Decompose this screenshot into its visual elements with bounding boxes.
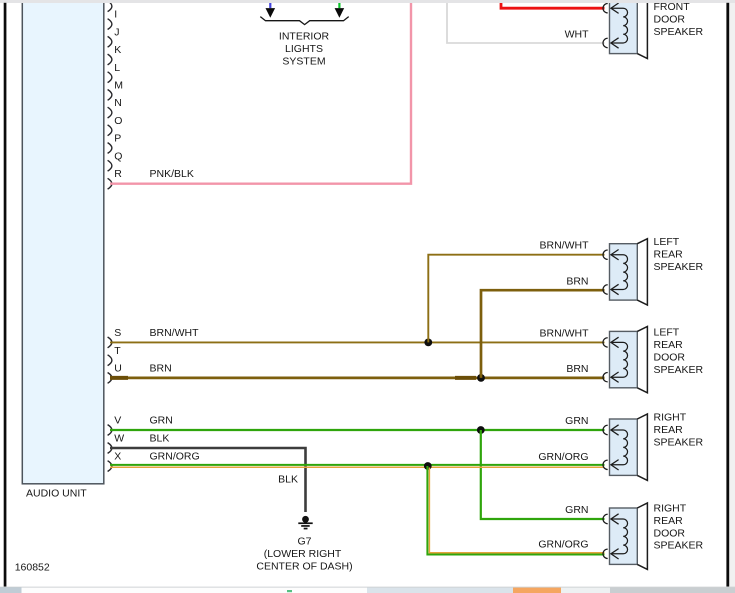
label LEFT REAR SPEAKER	[654, 236, 704, 273]
junction on GRN/ORG	[424, 462, 432, 470]
pin P	[108, 133, 122, 154]
svg-text:DOOR: DOOR	[654, 527, 686, 539]
wire BRN from pin U	[110, 377, 605, 380]
svg-text:I: I	[114, 9, 117, 21]
svg-text:INTERIOR: INTERIOR	[279, 31, 330, 43]
svg-text:SPEAKER: SPEAKER	[654, 261, 704, 273]
svg-text:U: U	[114, 363, 122, 375]
wire green stem to interior lights arrow 2	[338, 3, 340, 9]
svg-text:WHT: WHT	[565, 28, 589, 40]
wire BRN branch to left rear speaker	[481, 290, 605, 378]
wire PNK/BLK from pin R to interior lights system	[110, 3, 411, 184]
pin T	[108, 345, 122, 366]
label LEFT REAR DOOR SPEAKER	[654, 327, 704, 376]
pin K	[108, 44, 122, 65]
frame left border	[4, 3, 7, 587]
wire RED to front door speaker	[501, 3, 605, 9]
svg-text:J: J	[114, 26, 119, 38]
svg-text:BRN: BRN	[566, 275, 588, 287]
frame right border	[726, 3, 729, 587]
wire blue stem to interior lights arrow 1	[269, 3, 271, 9]
svg-text:DOOR: DOOR	[654, 351, 686, 363]
svg-text:SYSTEM: SYSTEM	[282, 56, 325, 68]
svg-text:GRN: GRN	[150, 415, 173, 427]
svg-text:R: R	[114, 168, 122, 180]
svg-text:P: P	[114, 133, 121, 145]
svg-text:AUDIO UNIT: AUDIO UNIT	[26, 488, 87, 500]
pin Q	[108, 150, 123, 171]
brace under arrows	[260, 17, 348, 25]
wire GRN/ORG branch to right rear door speaker (orange)	[429, 468, 604, 553]
svg-text:LEFT: LEFT	[654, 236, 680, 248]
svg-text:G7: G7	[297, 535, 311, 547]
wire GRN/ORG branch to right rear door speaker (green)	[427, 466, 604, 555]
wire WHT to front door speaker	[447, 3, 605, 44]
svg-text:REAR: REAR	[654, 248, 684, 260]
wire GRN from pin V	[110, 429, 605, 431]
svg-text:T: T	[114, 345, 121, 357]
arrow into interior lights system (right)	[335, 8, 345, 18]
pin O	[108, 115, 123, 136]
wire BRN thick segment before junction	[455, 376, 476, 380]
speaker front door	[603, 0, 647, 59]
pin H (partial, cut off)	[108, 1, 112, 12]
svg-text:X: X	[114, 450, 121, 462]
svg-text:RIGHT: RIGHT	[654, 412, 687, 424]
wire GRN/ORG from pin X (orange)	[110, 466, 605, 468]
wire BRN/WHT branch to left rear speaker	[428, 255, 604, 343]
svg-text:PNK/BLK: PNK/BLK	[150, 168, 194, 180]
svg-text:REAR: REAR	[654, 424, 684, 436]
svg-text:SPEAKER: SPEAKER	[654, 26, 704, 38]
junction on GRN	[477, 426, 485, 434]
svg-text:K: K	[114, 44, 121, 56]
svg-text:160852: 160852	[15, 562, 50, 574]
svg-text:M: M	[114, 80, 123, 92]
wire BRN thick segment at pin U	[110, 376, 128, 380]
scrollbar strip	[0, 587, 735, 593]
svg-text:LEFT: LEFT	[654, 327, 680, 339]
pin N	[108, 97, 122, 118]
svg-text:Q: Q	[114, 150, 122, 162]
svg-text:O: O	[114, 115, 122, 127]
right margin strip	[729, 3, 735, 587]
wire GRN branch to right rear door speaker	[481, 430, 605, 519]
svg-text:REAR: REAR	[654, 339, 684, 351]
svg-text:DOOR: DOOR	[654, 13, 686, 25]
svg-text:GRN: GRN	[565, 415, 588, 427]
speaker left rear	[603, 239, 647, 305]
label RIGHT REAR DOOR SPEAKER	[654, 503, 704, 552]
node INTERIOR LIGHTS SYSTEM	[279, 31, 330, 68]
audio unit U1 connector box	[22, 0, 104, 484]
svg-text:LIGHTS: LIGHTS	[285, 43, 323, 55]
svg-text:GRN/ORG: GRN/ORG	[538, 539, 588, 551]
svg-text:BLK: BLK	[278, 473, 298, 485]
svg-text:BRN/WHT: BRN/WHT	[540, 240, 590, 252]
pin V	[108, 415, 122, 436]
ground G7	[298, 516, 312, 530]
svg-text:W: W	[114, 433, 124, 445]
svg-text:L: L	[114, 62, 120, 74]
svg-text:GRN/ORG: GRN/ORG	[538, 451, 588, 463]
svg-text:V: V	[114, 415, 121, 427]
svg-text:GRN/ORG: GRN/ORG	[150, 450, 200, 462]
pin S	[108, 327, 122, 348]
top cut-off bar	[0, 0, 735, 3]
svg-text:RIGHT: RIGHT	[654, 503, 687, 515]
speaker right rear door	[603, 503, 647, 569]
svg-text:SPEAKER: SPEAKER	[654, 436, 704, 448]
wire BRN/WHT from pin S	[110, 341, 605, 343]
pin I	[108, 9, 118, 30]
svg-text:GRN: GRN	[565, 504, 588, 516]
svg-text:BLK: BLK	[150, 433, 170, 445]
speaker left rear door	[603, 326, 647, 392]
svg-text:SPEAKER: SPEAKER	[654, 540, 704, 552]
junction on BRN	[477, 374, 485, 382]
pin J	[108, 26, 120, 47]
wire GRN/ORG from pin X (green)	[110, 464, 605, 466]
svg-text:BRN/WHT: BRN/WHT	[150, 327, 200, 339]
svg-text:CENTER OF DASH): CENTER OF DASH)	[256, 560, 352, 572]
label RIGHT REAR SPEAKER	[654, 412, 704, 449]
pin W	[108, 433, 125, 454]
svg-text:SPEAKER: SPEAKER	[654, 364, 704, 376]
arrow into interior lights system (left)	[266, 8, 276, 18]
svg-text:BRN: BRN	[566, 363, 588, 375]
svg-text:(LOWER RIGHT: (LOWER RIGHT	[264, 548, 342, 560]
svg-text:S: S	[114, 327, 121, 339]
speaker right rear	[603, 414, 647, 480]
svg-text:BRN: BRN	[150, 363, 172, 375]
svg-text:REAR: REAR	[654, 515, 684, 527]
pin U	[108, 363, 122, 384]
pin X	[108, 450, 122, 471]
ground label G7 (LOWER RIGHT CENTER OF DASH)	[256, 535, 352, 572]
junction on BRN/WHT	[424, 339, 432, 347]
svg-text:N: N	[114, 97, 122, 109]
wire BLK from pin W to ground	[110, 448, 306, 512]
pin R	[108, 168, 123, 189]
svg-text:BRN/WHT: BRN/WHT	[540, 327, 590, 339]
pin L	[108, 62, 121, 83]
label FRONT DOOR SPEAKER	[654, 1, 704, 38]
pin M	[108, 80, 123, 101]
